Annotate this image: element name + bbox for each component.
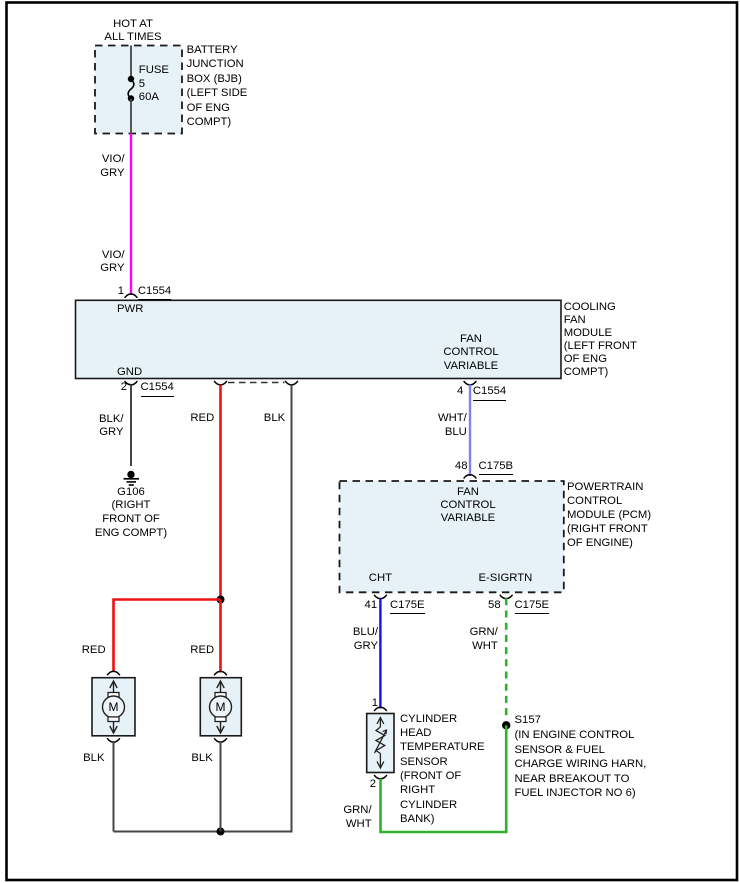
svg-text:M: M — [109, 700, 119, 714]
svg-text:M: M — [216, 700, 226, 714]
